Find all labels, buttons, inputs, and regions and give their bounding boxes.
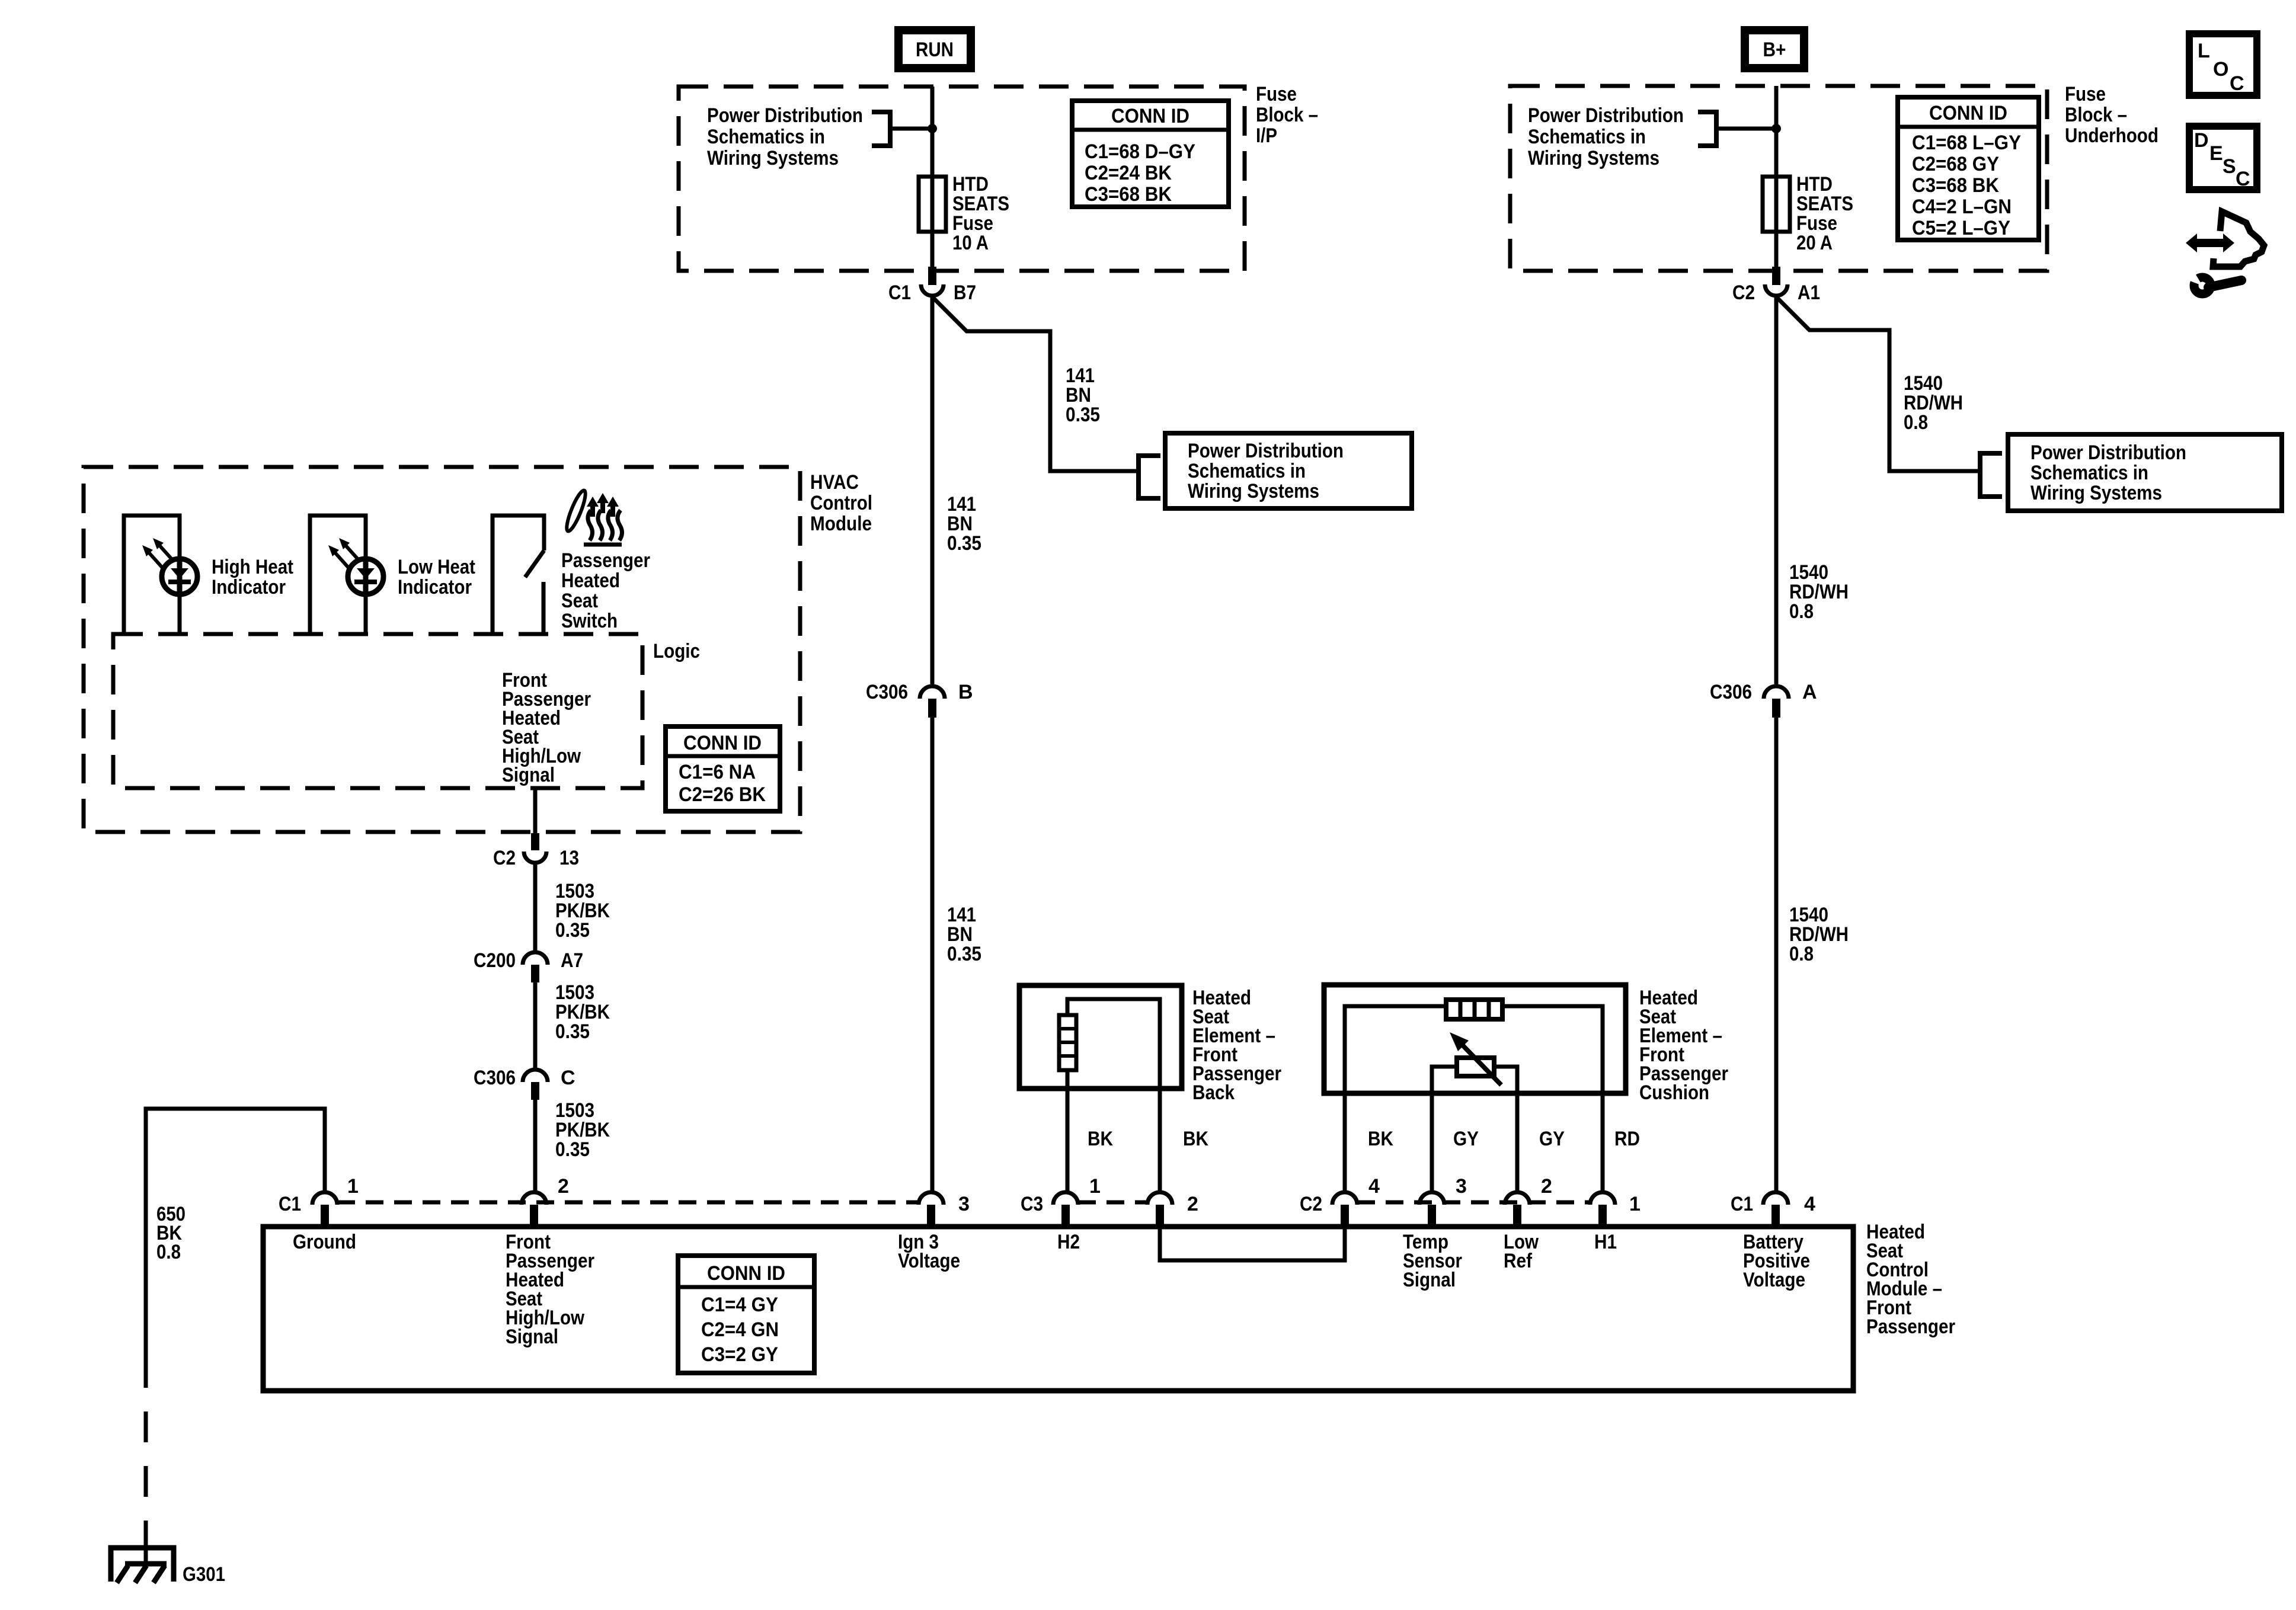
label C3 xyxy=(1021,1193,1043,1215)
svg-text:0.8: 0.8 xyxy=(156,1241,181,1263)
label 1503 PK/BK 0.35 (segment 3) xyxy=(555,1099,610,1161)
svg-text:CONN ID: CONN ID xyxy=(683,732,762,754)
connector C306 A stub xyxy=(1772,699,1780,718)
LOC icon box xyxy=(2189,34,2257,95)
svg-text:0.35: 0.35 xyxy=(947,532,981,555)
note Power Distribution Schematics (underhood) xyxy=(1528,104,1684,169)
label GY (temp signal) xyxy=(1453,1128,1479,1150)
svg-text:Wiring Systems: Wiring Systems xyxy=(1528,147,1659,169)
svg-text:Logic: Logic xyxy=(653,640,700,662)
label Fuse Block Underhood xyxy=(2065,83,2159,147)
pin name Temp Sensor Signal xyxy=(1403,1231,1462,1291)
connector row dashed line C2 (pins 4-1) xyxy=(1357,1201,1590,1205)
svg-text:Ref: Ref xyxy=(1504,1250,1533,1272)
svg-text:C2: C2 xyxy=(1300,1193,1322,1215)
svg-text:B7: B7 xyxy=(954,281,976,304)
wire 1503 PK/BK segment 1 xyxy=(533,864,538,951)
pin name H1 xyxy=(1594,1231,1617,1253)
svg-text:G301: G301 xyxy=(183,1563,225,1586)
svg-text:Seat: Seat xyxy=(561,590,598,612)
svg-text:O: O xyxy=(2213,58,2228,81)
wire battery voltage vertical (1540 RD/WH) xyxy=(1774,297,1779,685)
label Front Passenger Heated Seat High/Low Signal (logic output) xyxy=(502,669,591,786)
svg-text:10 A: 10 A xyxy=(952,232,989,254)
svg-text:Indicator: Indicator xyxy=(212,576,286,598)
bracket to power distribution note (underhood) xyxy=(1698,112,1716,146)
pin number 2 (C3) xyxy=(1187,1193,1198,1215)
wire RD to C2-1 xyxy=(1601,1093,1605,1191)
svg-text:0.35: 0.35 xyxy=(555,919,590,942)
module pin arc x=2560 xyxy=(1505,1192,1530,1205)
svg-text:1: 1 xyxy=(1629,1193,1641,1215)
svg-text:2: 2 xyxy=(1541,1175,1552,1198)
module pin arc x=2704 xyxy=(1590,1192,1615,1205)
high heat indicator LED loop wire xyxy=(124,516,180,634)
label 141 BN 0.35 (upper run) xyxy=(947,493,981,555)
connector C306 B arc xyxy=(920,686,945,699)
svg-text:Heated: Heated xyxy=(561,569,620,592)
label C2 (HVAC output) xyxy=(493,847,516,869)
label HVAC Control Module xyxy=(810,471,872,535)
module pin arc x=901 xyxy=(522,1192,546,1205)
svg-text:Voltage: Voltage xyxy=(1743,1269,1805,1291)
pin name Ground xyxy=(293,1231,356,1253)
svg-text:0.8: 0.8 xyxy=(1789,943,1814,965)
junction node on B+ feed xyxy=(1771,124,1781,133)
svg-text:Voltage: Voltage xyxy=(898,1250,960,1272)
label High Heat Indicator xyxy=(212,556,293,598)
wire back element H2 lead xyxy=(1066,1070,1070,1191)
CONN ID table (heated seat control module) xyxy=(678,1256,814,1373)
wire ground 650 BK from pin C1-1 xyxy=(146,1109,325,1357)
svg-text:BK: BK xyxy=(1183,1128,1208,1150)
svg-text:Power Distribution: Power Distribution xyxy=(1528,104,1684,127)
wire GY to C2-2 xyxy=(1515,1093,1520,1191)
svg-text:C1=68 L–GY: C1=68 L–GY xyxy=(1912,132,2021,154)
wire from note bracket to RUN feed xyxy=(890,127,932,131)
thermistor leads xyxy=(1432,1067,1517,1093)
connector C306 A arc xyxy=(1764,686,1789,699)
label C306 (A) xyxy=(1710,681,1752,703)
bracket into power distribution box (left) xyxy=(1139,456,1160,498)
label C1 (module right) xyxy=(1731,1193,1753,1215)
heated seat element cushion box xyxy=(1324,985,1626,1093)
wire branch circuit 141 to power distribution xyxy=(932,297,1139,471)
svg-text:GY: GY xyxy=(1453,1128,1479,1150)
svg-text:3: 3 xyxy=(958,1193,970,1215)
label C200 xyxy=(474,949,516,972)
connector C306 B stub xyxy=(928,699,936,718)
svg-text:C2=26 BK: C2=26 BK xyxy=(679,783,766,806)
label A xyxy=(1802,681,1817,703)
wire 1503 PK/BK segment 2 xyxy=(533,982,538,1068)
svg-text:C1: C1 xyxy=(888,281,911,304)
svg-text:0.35: 0.35 xyxy=(947,943,981,965)
label 141 BN 0.35 (lower run) xyxy=(947,904,981,965)
module pin arc x=2269 xyxy=(1332,1192,1357,1205)
connector C2 A1 arc xyxy=(1765,284,1787,296)
svg-text:C: C xyxy=(2236,168,2250,190)
svg-text:C: C xyxy=(561,1067,575,1089)
svg-text:Schematics in: Schematics in xyxy=(1188,460,1306,482)
svg-text:Underhood: Underhood xyxy=(2065,124,2159,147)
note Power Distribution Schematics (I/P) xyxy=(707,104,863,169)
cushion heater loop wire xyxy=(1345,1006,1603,1093)
wire 141 BN lower run xyxy=(930,718,935,1191)
low heat LED emission arrows xyxy=(328,538,359,568)
label BK (back element return) xyxy=(1183,1128,1208,1150)
svg-text:C2=68 GY: C2=68 GY xyxy=(1912,153,1999,175)
svg-text:1: 1 xyxy=(347,1175,359,1198)
svg-text:C1: C1 xyxy=(1731,1193,1753,1215)
label 1503 PK/BK 0.35 (segment 1) xyxy=(555,880,610,942)
junction node on RUN feed xyxy=(928,124,937,133)
svg-text:C2: C2 xyxy=(1732,281,1755,304)
wire logic output to C2-13 xyxy=(533,788,538,835)
svg-text:C3: C3 xyxy=(1021,1193,1043,1215)
module pin arc x=1957 xyxy=(1147,1192,1172,1205)
pin number 1 xyxy=(347,1175,359,1198)
svg-text:Wiring Systems: Wiring Systems xyxy=(2030,482,2162,504)
logic dashed box xyxy=(113,634,642,788)
module pin arc x=2996 xyxy=(1763,1192,1788,1205)
svg-text:0.8: 0.8 xyxy=(1789,600,1814,623)
back element heater symbol xyxy=(1059,1015,1076,1070)
label Heated Seat Control Module Front Passenger xyxy=(1866,1221,1955,1338)
pin number 4 (C1) xyxy=(1804,1193,1815,1215)
svg-text:HVAC: HVAC xyxy=(810,471,859,494)
svg-text:4: 4 xyxy=(1368,1175,1380,1198)
svg-text:Signal: Signal xyxy=(506,1326,558,1348)
svg-text:RD: RD xyxy=(1614,1128,1640,1150)
box Power Distribution Schematics in Wiring Systems (left) xyxy=(1165,433,1412,508)
svg-text:I/P: I/P xyxy=(1256,124,1277,147)
wire from note bracket to B+ feed xyxy=(1716,127,1776,131)
svg-text:Power Distribution: Power Distribution xyxy=(1188,440,1344,462)
CONN ID table (fuse block I/P) xyxy=(1072,101,1229,207)
svg-text:C4=2 L–GN: C4=2 L–GN xyxy=(1912,196,2012,218)
internal jumper C3-2 to C2-4 xyxy=(1160,1224,1345,1260)
svg-text:Passenger: Passenger xyxy=(1866,1315,1955,1338)
label Heated Seat Element Front Passenger Back xyxy=(1192,987,1281,1104)
label 141 BN 0.35 (branch) xyxy=(1066,364,1100,426)
svg-text:1: 1 xyxy=(1089,1175,1101,1198)
label C xyxy=(561,1067,575,1089)
svg-text:B: B xyxy=(958,681,973,703)
svg-text:Wiring Systems: Wiring Systems xyxy=(707,147,839,169)
thermistor (temp sensor) xyxy=(1450,1032,1501,1085)
label B xyxy=(958,681,973,703)
RUN ignition voltage terminal xyxy=(898,30,971,68)
connector C306 C arc xyxy=(523,1070,548,1082)
connector C2 13 arc xyxy=(524,852,546,863)
connector C2 13 stub xyxy=(531,833,539,850)
svg-text:13: 13 xyxy=(559,847,579,869)
svg-text:Signal: Signal xyxy=(502,764,555,786)
svg-text:20 A: 20 A xyxy=(1796,232,1833,254)
svg-text:Signal: Signal xyxy=(1403,1269,1456,1291)
svg-text:C306: C306 xyxy=(1710,681,1752,703)
fuse HTD SEATS 20 A xyxy=(1763,173,1853,254)
label GY (low ref) xyxy=(1539,1128,1565,1150)
svg-text:Schematics in: Schematics in xyxy=(2030,462,2148,484)
wire ignition voltage vertical (141 BN) xyxy=(930,297,935,685)
label Heated Seat Element Front Passenger Cushion xyxy=(1639,987,1728,1104)
label C2 (fuse output) xyxy=(1732,281,1755,304)
wire branch circuit 1540 to power distribution xyxy=(1776,297,1980,471)
svg-text:B+: B+ xyxy=(1763,39,1786,61)
B+ battery voltage terminal xyxy=(1745,30,1804,68)
pin name Ign 3 Voltage xyxy=(898,1231,960,1272)
heated seat element back box xyxy=(1019,985,1182,1089)
pin name Low Ref xyxy=(1504,1231,1539,1272)
svg-text:E: E xyxy=(2209,142,2223,165)
label 650 BK 0.8 xyxy=(156,1203,186,1263)
connector C1 B7 stub xyxy=(928,267,936,285)
svg-text:CONN ID: CONN ID xyxy=(707,1262,785,1285)
svg-text:0.35: 0.35 xyxy=(555,1020,590,1043)
svg-text:C5=2 L–GY: C5=2 L–GY xyxy=(1912,217,2010,239)
pin number 3 (C2) xyxy=(1456,1175,1467,1198)
svg-text:A1: A1 xyxy=(1798,281,1820,304)
label C2 (module) xyxy=(1300,1193,1322,1215)
pin number 1 (C3) xyxy=(1089,1175,1101,1198)
svg-text:C2: C2 xyxy=(493,847,516,869)
svg-text:C3=68 BK: C3=68 BK xyxy=(1912,174,1999,197)
svg-text:H1: H1 xyxy=(1594,1231,1617,1253)
connector row dashed line C1 (pins 1-3) xyxy=(337,1201,919,1205)
svg-text:Switch: Switch xyxy=(561,610,618,632)
fuse HTD SEATS 10 A xyxy=(919,173,1009,254)
svg-text:C2=24 BK: C2=24 BK xyxy=(1085,162,1172,184)
svg-text:Wiring Systems: Wiring Systems xyxy=(1188,480,1319,502)
svg-text:Indicator: Indicator xyxy=(398,576,472,598)
CONN ID table (fuse block underhood) xyxy=(1898,97,2039,240)
svg-text:3: 3 xyxy=(1456,1175,1467,1198)
low heat indicator LED xyxy=(348,559,383,594)
label RD (H1) xyxy=(1614,1128,1640,1150)
pin number 1 (C2) xyxy=(1629,1193,1641,1215)
svg-text:Passenger: Passenger xyxy=(561,549,650,572)
DESC icon box xyxy=(2189,126,2257,190)
cushion heater symbol xyxy=(1446,1000,1502,1019)
svg-text:Schematics in: Schematics in xyxy=(1528,126,1646,148)
svg-text:CONN ID: CONN ID xyxy=(1929,102,2007,124)
svg-text:C306: C306 xyxy=(866,681,908,703)
module pin arc x=2416 xyxy=(1419,1192,1444,1205)
svg-text:C2=4 GN: C2=4 GN xyxy=(701,1318,779,1341)
HVAC control module dashed box xyxy=(84,467,800,832)
label 1540 RD/WH 0.8 (branch) xyxy=(1904,372,1963,434)
svg-text:4: 4 xyxy=(1804,1193,1815,1215)
label A7 xyxy=(561,949,583,972)
svg-text:Low Heat: Low Heat xyxy=(398,556,475,578)
low heat indicator LED loop wire xyxy=(310,516,366,634)
svg-text:High Heat: High Heat xyxy=(212,556,293,578)
CONN ID table (HVAC control module) xyxy=(666,726,780,811)
svg-text:Cushion: Cushion xyxy=(1639,1081,1709,1104)
connector C2 A1 stub xyxy=(1772,267,1780,285)
svg-text:L: L xyxy=(2198,40,2210,62)
label Fuse Block I/P xyxy=(1256,83,1318,147)
svg-text:C: C xyxy=(2230,72,2244,95)
label B7 xyxy=(954,281,976,304)
svg-text:C1: C1 xyxy=(279,1193,301,1215)
label 1540 RD/WH 0.8 (upper run) xyxy=(1789,561,1849,623)
svg-text:BK: BK xyxy=(1368,1128,1393,1150)
svg-text:Block –: Block – xyxy=(1256,104,1318,126)
svg-text:C200: C200 xyxy=(474,949,516,972)
label C306 (B) xyxy=(866,681,908,703)
label A1 xyxy=(1798,281,1820,304)
svg-text:Schematics in: Schematics in xyxy=(707,126,825,148)
label C306 (C) xyxy=(474,1067,516,1089)
svg-text:2: 2 xyxy=(1187,1193,1198,1215)
svg-text:Power Distribution: Power Distribution xyxy=(2030,441,2186,464)
label 13 xyxy=(559,847,579,869)
connector C306 C stub xyxy=(531,1082,539,1100)
svg-text:Module: Module xyxy=(810,513,872,535)
svg-text:RUN: RUN xyxy=(916,39,954,61)
svg-text:H2: H2 xyxy=(1057,1231,1080,1253)
connector row dashed line C3 (pins 1-2) xyxy=(1078,1201,1147,1205)
wire GY to C2-3 xyxy=(1430,1093,1434,1191)
connector C200 A7 stub xyxy=(531,965,539,982)
module pin arc x=1798 xyxy=(1053,1192,1078,1205)
svg-text:CONN ID: CONN ID xyxy=(1111,105,1189,127)
label Low Heat Indicator xyxy=(398,556,475,598)
fuse block I/P dashed box xyxy=(679,87,1245,271)
heated seat switch icon xyxy=(564,489,622,545)
svg-text:BK: BK xyxy=(1088,1128,1113,1150)
bracket to power distribution note (I/P) xyxy=(872,112,890,146)
label C1 xyxy=(888,281,911,304)
wire 1503 PK/BK segment 3 xyxy=(533,1100,538,1191)
label G301 xyxy=(183,1563,225,1586)
pin name Battery Positive Voltage xyxy=(1743,1231,1810,1291)
pin number 2 (C2) xyxy=(1541,1175,1552,1198)
svg-text:C1=6 NA: C1=6 NA xyxy=(679,761,756,783)
svg-text:S: S xyxy=(2223,155,2236,178)
svg-text:Fuse: Fuse xyxy=(2065,83,2106,105)
svg-text:C1=68 D–GY: C1=68 D–GY xyxy=(1085,140,1195,163)
svg-text:A: A xyxy=(1802,681,1817,703)
svg-text:C3=68 BK: C3=68 BK xyxy=(1085,183,1172,206)
high heat LED emission arrows xyxy=(142,538,173,568)
svg-text:0.35: 0.35 xyxy=(555,1138,590,1161)
svg-text:Ground: Ground xyxy=(293,1231,356,1253)
pin number 4 (C2) xyxy=(1368,1175,1380,1198)
wire 1540 RD/WH lower run xyxy=(1774,718,1779,1191)
pin name Front Passenger Heated Seat High/Low Signal xyxy=(506,1231,594,1348)
label Passenger Heated Seat Switch xyxy=(561,549,650,632)
service icon (arrow and wrench) xyxy=(2182,212,2264,294)
label BK (H2 lead) xyxy=(1088,1128,1113,1150)
label C1 (module left) xyxy=(279,1193,301,1215)
wire RUN feed vertical xyxy=(930,87,935,267)
svg-text:2: 2 xyxy=(558,1175,569,1198)
svg-text:C3=2 GY: C3=2 GY xyxy=(701,1343,778,1366)
module pin arc x=548 xyxy=(312,1192,337,1205)
label 1503 PK/BK 0.35 (segment 2) xyxy=(555,981,610,1043)
heated seat control module box xyxy=(263,1227,1853,1391)
connector C200 A7 arc xyxy=(523,952,548,965)
bracket into power distribution box (right) xyxy=(1980,453,2002,497)
svg-text:C306: C306 xyxy=(474,1067,516,1089)
pin number 3 xyxy=(958,1193,970,1215)
svg-text:D: D xyxy=(2194,129,2209,152)
fuse block underhood dashed box xyxy=(1510,86,2047,271)
box Power Distribution Schematics in Wiring Systems (right) xyxy=(2008,434,2282,511)
pin name H2 xyxy=(1057,1231,1080,1253)
svg-text:A7: A7 xyxy=(561,949,583,972)
passenger heated seat switch xyxy=(493,516,544,634)
svg-text:Power Distribution: Power Distribution xyxy=(707,104,863,127)
wire B+ feed vertical xyxy=(1774,86,1779,267)
high heat indicator LED xyxy=(162,559,197,594)
svg-text:C1=4 GY: C1=4 GY xyxy=(701,1294,778,1316)
svg-text:Fuse: Fuse xyxy=(1256,83,1297,105)
svg-text:Control: Control xyxy=(810,492,872,514)
wire BK to C2-4 xyxy=(1343,1093,1347,1191)
wire back element top loop xyxy=(1067,999,1160,1191)
wire into ground symbol xyxy=(144,1536,148,1565)
module pin arc x=1571 xyxy=(919,1192,944,1205)
svg-text:0.8: 0.8 xyxy=(1904,411,1928,434)
svg-text:Back: Back xyxy=(1192,1081,1235,1104)
wire ground dashed run xyxy=(144,1357,148,1541)
svg-text:0.35: 0.35 xyxy=(1066,404,1100,426)
svg-text:GY: GY xyxy=(1539,1128,1565,1150)
connector C1 B7 arc xyxy=(921,284,944,296)
label 1540 RD/WH 0.8 (lower run) xyxy=(1789,904,1849,965)
label Logic xyxy=(653,640,700,662)
pin number 2 xyxy=(558,1175,569,1198)
svg-text:Block –: Block – xyxy=(2065,104,2127,126)
label BK (cushion) xyxy=(1368,1128,1393,1150)
ground G301 symbol xyxy=(111,1548,174,1583)
